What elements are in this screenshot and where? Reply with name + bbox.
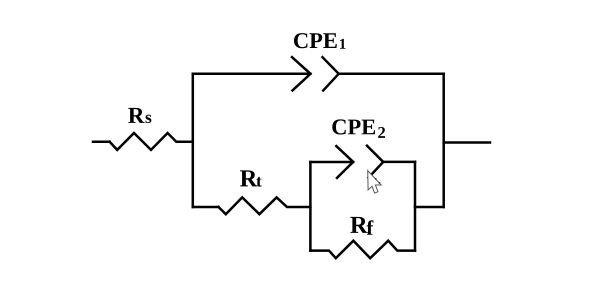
wire inner box top right [383, 161, 415, 164]
CPE2 chevron right [367, 146, 383, 178]
wire inner box left vertical [309, 162, 312, 251]
label Rf [350, 217, 373, 235]
wire left terminal [93, 140, 110, 143]
mouse cursor [368, 171, 382, 194]
wire inner box top left [310, 161, 353, 164]
CPE1 chevron left [292, 57, 311, 90]
label CPE1 [294, 33, 346, 49]
wire inner box right vertical [414, 162, 417, 251]
resistor Rs [110, 133, 193, 150]
wire top branch right [339, 73, 444, 76]
wire right terminal [444, 141, 490, 144]
label CPE2 [332, 119, 385, 137]
CPE2 chevron left [336, 146, 353, 178]
label Rs [128, 108, 151, 123]
wire left vertical node [192, 74, 195, 207]
wire top branch left [193, 73, 310, 76]
wire bottom branch left [193, 206, 219, 209]
label Rt [240, 170, 262, 186]
resistor Rf [310, 241, 415, 259]
CPE1 chevron right [323, 57, 339, 90]
resistor Rt [219, 197, 311, 214]
wire inner box exit [415, 206, 444, 209]
wire right vertical node [442, 74, 445, 207]
